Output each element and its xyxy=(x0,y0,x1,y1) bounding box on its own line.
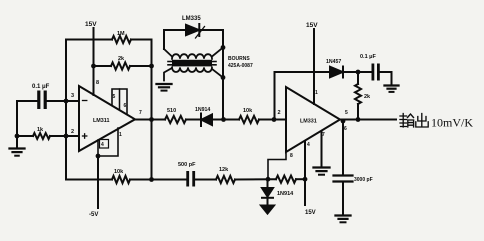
svg-text:0.1 μF: 0.1 μF xyxy=(32,84,50,90)
svg-text:8: 8 xyxy=(96,80,99,86)
svg-text:10k: 10k xyxy=(114,169,124,175)
svg-text:1M: 1M xyxy=(117,31,125,37)
svg-text:5: 5 xyxy=(113,94,116,100)
svg-text:5: 5 xyxy=(345,110,348,116)
svg-text:7: 7 xyxy=(139,110,142,116)
svg-text:6: 6 xyxy=(124,103,127,109)
svg-text:1N457: 1N457 xyxy=(326,59,341,65)
svg-text:1: 1 xyxy=(315,90,318,96)
svg-text:2: 2 xyxy=(278,110,281,116)
svg-text:1N914: 1N914 xyxy=(277,191,294,197)
svg-text:8: 8 xyxy=(290,153,293,159)
svg-text:3000 pF: 3000 pF xyxy=(354,177,373,183)
svg-text:0.1 μF: 0.1 μF xyxy=(360,54,377,60)
svg-text:2: 2 xyxy=(71,129,74,135)
svg-text:2k: 2k xyxy=(364,94,371,100)
svg-text:2k: 2k xyxy=(118,56,125,62)
svg-text:10k: 10k xyxy=(243,108,253,114)
svg-text:4: 4 xyxy=(307,142,310,148)
svg-text:500 pF: 500 pF xyxy=(178,162,196,168)
svg-text:LM311: LM311 xyxy=(93,118,109,124)
svg-text:1: 1 xyxy=(119,132,122,138)
svg-text:12k: 12k xyxy=(219,167,229,173)
svg-text:1k: 1k xyxy=(37,127,44,133)
svg-text:15V: 15V xyxy=(305,210,316,216)
svg-text:LM335: LM335 xyxy=(182,16,201,22)
svg-text:BOURNS: BOURNS xyxy=(228,56,250,62)
svg-text:15V: 15V xyxy=(85,21,97,28)
svg-text:425A-0087: 425A-0087 xyxy=(228,63,253,69)
svg-text:1N914: 1N914 xyxy=(195,107,210,113)
svg-text:10mV/K: 10mV/K xyxy=(431,116,473,130)
svg-text:3: 3 xyxy=(71,93,74,99)
svg-text:-5V: -5V xyxy=(89,212,98,218)
svg-text:4: 4 xyxy=(101,142,104,148)
svg-text:6: 6 xyxy=(344,126,347,132)
svg-text:510: 510 xyxy=(167,108,176,114)
svg-text:15V: 15V xyxy=(306,22,318,29)
svg-text:LM331: LM331 xyxy=(300,119,317,125)
